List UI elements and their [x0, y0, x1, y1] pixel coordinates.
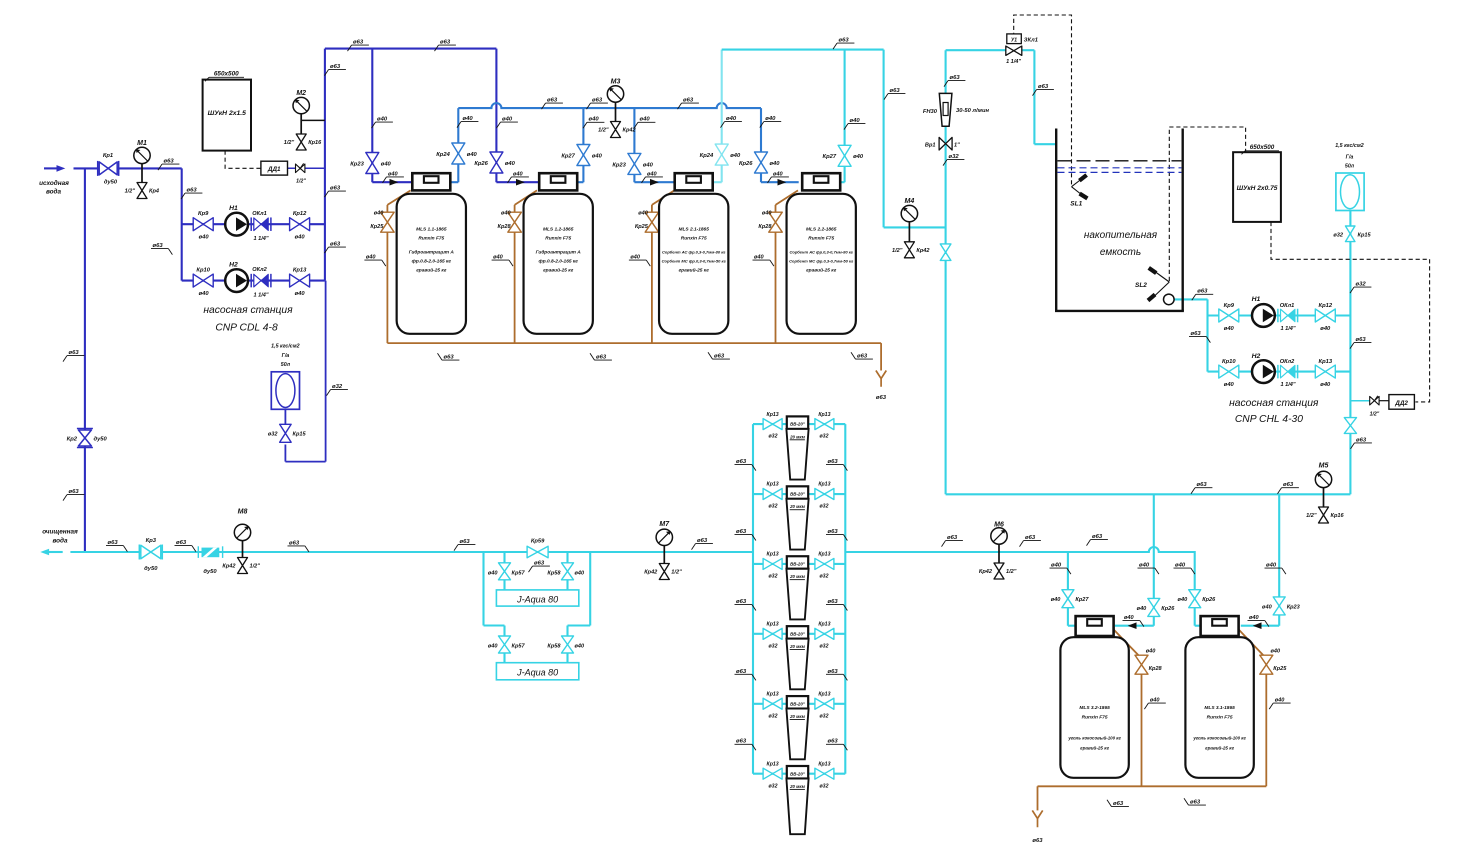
svg-text:1/2": 1/2"	[296, 179, 306, 185]
svg-text:емкость: емкость	[1100, 247, 1141, 258]
svg-text:ø32: ø32	[820, 574, 829, 580]
svg-text:ø40: ø40	[463, 116, 474, 122]
svg-text:ø63: ø63	[1356, 437, 1367, 443]
svg-text:ø32: ø32	[820, 783, 829, 789]
pump H2 CHL	[1252, 360, 1275, 383]
svg-text:ø63: ø63	[736, 739, 747, 745]
svg-text:ø40: ø40	[1139, 563, 1150, 569]
valve on CHL discharge riser	[1344, 418, 1356, 434]
svg-text:ø63: ø63	[153, 243, 164, 249]
svg-text:ø40: ø40	[640, 117, 651, 123]
arrow into tank1.1	[390, 179, 399, 186]
svg-text:уголь кокосовый-100 кг: уголь кокосовый-100 кг	[1067, 736, 1121, 741]
svg-text:1/2": 1/2"	[1006, 569, 1017, 575]
svg-text:1/2": 1/2"	[671, 570, 682, 576]
svg-text:ø63: ø63	[1032, 838, 1043, 844]
gauge M3 with valve Kp42	[615, 94, 617, 123]
svg-text:30-50 л/мин: 30-50 л/мин	[956, 108, 989, 114]
wire cartridge row 4	[753, 633, 845, 635]
svg-text:ø40: ø40	[1320, 326, 1331, 332]
svg-text:ø40: ø40	[1150, 698, 1161, 704]
svg-text:гравий-25 кг: гравий-25 кг	[679, 266, 710, 273]
wire pump CHL discharge line ø63	[946, 493, 1351, 495]
svg-text:Г/а: Г/а	[282, 353, 290, 359]
svg-text:ø63: ø63	[108, 540, 119, 546]
wire main treated-water line right part with crossing arc	[845, 547, 1194, 589]
svg-text:Кр26: Кр26	[1161, 606, 1175, 612]
svg-text:1 1/4": 1 1/4"	[1280, 382, 1295, 388]
check valve OKl2	[250, 274, 252, 288]
svg-text:MLS 1.1-1865: MLS 1.1-1865	[416, 226, 447, 232]
svg-text:ø40: ø40	[1175, 563, 1186, 569]
svg-text:ЗКл1: ЗКл1	[1024, 38, 1038, 44]
svg-text:М3: М3	[611, 79, 621, 86]
tank MLS 2.2-1865	[787, 194, 856, 334]
svg-text:М6: М6	[994, 522, 1004, 529]
svg-text:гравий-25 кг: гравий-25 кг	[1080, 745, 1109, 751]
svg-text:М2: М2	[296, 90, 306, 97]
svg-text:гравий-25 кг: гравий-25 кг	[416, 266, 447, 273]
svg-text:Сорбент АС фр.0,3-0,7мм-80 кг: Сорбент АС фр.0,3-0,7мм-80 кг	[662, 250, 726, 255]
valve Kp24 tank2.1 outlet	[715, 144, 728, 165]
svg-text:Гидроантрацит А: Гидроантрацит А	[536, 250, 582, 256]
svg-text:ø32: ø32	[769, 713, 778, 719]
svg-text:Кр9: Кр9	[1224, 303, 1235, 309]
svg-text:20 мкм: 20 мкм	[789, 504, 806, 509]
valve Kp13 row5 right	[815, 698, 834, 709]
svg-text:20 мкм: 20 мкм	[789, 784, 806, 789]
wire drain manifold group1+2 ø63	[387, 342, 881, 344]
svg-text:Кр12: Кр12	[293, 211, 307, 217]
svg-text:ø32: ø32	[820, 434, 829, 440]
svg-text:ду50: ду50	[104, 180, 118, 186]
svg-text:Кр26: Кр26	[1202, 597, 1216, 603]
svg-text:ø40: ø40	[1266, 563, 1277, 569]
wire drop to M4 header	[883, 50, 885, 228]
svg-text:50л: 50л	[1345, 164, 1355, 170]
valve on recirculation riser	[940, 244, 951, 261]
svg-text:ø32: ø32	[769, 504, 778, 510]
drain valve Кр28	[508, 212, 521, 232]
svg-text:накопительная: накопительная	[1084, 230, 1158, 241]
wire intermediate manifold ø63 with crossing arcs	[458, 103, 761, 108]
control line SL2 to ShUkN2	[1169, 127, 1245, 281]
svg-text:ø63: ø63	[950, 75, 961, 81]
svg-text:Кр42: Кр42	[916, 248, 930, 254]
svg-text:Runxin F75: Runxin F75	[1082, 715, 1108, 721]
valve Kp13 row5 left	[763, 698, 782, 709]
wire tank2.2 inlet drop	[760, 108, 762, 182]
svg-text:Runxin F75: Runxin F75	[418, 236, 444, 242]
svg-text:ø63: ø63	[736, 669, 747, 675]
svg-text:ø40: ø40	[505, 161, 516, 167]
svg-text:J-Aqua 80: J-Aqua 80	[516, 595, 558, 605]
check valve OKl2 CHL	[1277, 365, 1279, 379]
svg-text:CNP CDL 4-8: CNP CDL 4-8	[215, 323, 278, 334]
expansion vessel CDL 50l	[271, 372, 299, 410]
wire tank2.2 outlet riser	[839, 181, 845, 183]
arrow into tank1.2	[516, 179, 525, 186]
svg-text:Кр57: Кр57	[512, 571, 526, 577]
cartridge filter BB-20 row2	[787, 486, 808, 499]
svg-text:ø63: ø63	[736, 459, 747, 465]
wire CHL pump H1 row	[1208, 314, 1351, 316]
svg-text:Кр2: Кр2	[67, 437, 78, 443]
wire outlet manifold group2 ø63	[722, 49, 884, 51]
cartridge filter BB-20 row5	[787, 696, 808, 709]
svg-text:Кр26: Кр26	[739, 161, 753, 167]
svg-text:Кр13: Кр13	[767, 552, 779, 558]
wire top inlet manifold group1 ø63	[325, 48, 497, 50]
svg-text:FH30: FH30	[923, 109, 938, 115]
svg-text:ø63: ø63	[736, 599, 747, 605]
svg-text:гравий-25 кг: гравий-25 кг	[1205, 745, 1234, 751]
pump H1 CDL	[225, 213, 248, 236]
svg-text:ø63: ø63	[330, 242, 341, 248]
svg-text:ø63: ø63	[697, 538, 708, 544]
valve Kp15 left	[280, 424, 292, 442]
valve Kp59 bypass	[527, 546, 548, 558]
svg-text:ø63: ø63	[683, 98, 694, 104]
solenoid valve U1 ZKl1	[1007, 34, 1022, 44]
wire tank1.2 outlet riser	[576, 181, 583, 183]
svg-text:ø40: ø40	[366, 255, 377, 261]
tank MLS 3.1-1865	[1185, 637, 1253, 778]
svg-text:ду50: ду50	[144, 566, 158, 572]
svg-text:ø40: ø40	[295, 291, 306, 297]
cartridge filter BB-20 row6	[787, 766, 808, 779]
cartridge filter BB-20 row1	[787, 416, 808, 429]
svg-text:ø40: ø40	[643, 162, 654, 168]
wire cartridge row 5	[753, 703, 845, 705]
svg-text:Кр27: Кр27	[823, 154, 837, 160]
valve Kp13	[290, 274, 310, 287]
svg-text:ø40: ø40	[762, 211, 773, 217]
drain funnel Y group1	[876, 371, 886, 387]
svg-text:ø32: ø32	[1333, 232, 1344, 238]
valve Kp2 du50	[77, 428, 93, 430]
wire discharge riser CDL ø63	[324, 49, 326, 281]
tank MLS 3.2-1865	[1060, 637, 1128, 778]
svg-text:исходная: исходная	[39, 179, 69, 187]
svg-text:ø32: ø32	[820, 504, 829, 510]
valve Kp15 right	[1345, 226, 1355, 242]
svg-text:Кр4: Кр4	[149, 189, 160, 195]
svg-text:Кр3: Кр3	[146, 538, 157, 544]
valve Kp57 loop2	[499, 636, 511, 653]
svg-text:Кр10: Кр10	[1222, 359, 1236, 365]
svg-text:ø40: ø40	[850, 118, 861, 124]
drain valve Кр25	[645, 212, 659, 232]
valve Kp23 tank3.1 inlet	[1273, 597, 1285, 615]
control line ShUkN1 to DD1	[225, 151, 261, 169]
valve Kp13 row6 right	[815, 768, 834, 779]
svg-text:ø32: ø32	[949, 154, 960, 160]
svg-text:1,5 кгс/см2: 1,5 кгс/см2	[1335, 143, 1363, 149]
wire cartridge row 1	[753, 423, 845, 425]
storage tank outlet nozzle	[1164, 294, 1175, 305]
svg-text:Runxin F75: Runxin F75	[545, 236, 571, 242]
wire tank3.1 inlet drop	[1278, 494, 1280, 625]
svg-text:ø63: ø63	[444, 355, 455, 361]
svg-text:ø63: ø63	[828, 739, 839, 745]
valve Kp12 CHL	[1315, 309, 1335, 322]
svg-text:ø40: ø40	[1224, 382, 1235, 388]
svg-text:ø40: ø40	[773, 171, 784, 177]
svg-text:ø63: ø63	[1092, 534, 1103, 540]
svg-text:М5: М5	[1319, 463, 1329, 470]
svg-text:ШУкН 2x0.75: ШУкН 2x0.75	[1237, 185, 1278, 192]
svg-text:Н2: Н2	[1252, 353, 1261, 360]
wire tank2.2 drain	[776, 190, 799, 205]
svg-text:ø63: ø63	[69, 350, 80, 356]
svg-text:Кр13: Кр13	[767, 761, 779, 767]
expansion vessel CHL 50l	[1336, 173, 1364, 211]
svg-text:ø40: ø40	[493, 255, 504, 261]
valve Kp9 CHL	[1219, 309, 1239, 322]
svg-text:Кр28: Кр28	[1149, 666, 1163, 672]
wire DD1 branch	[288, 167, 325, 169]
gauge M4 with valve Kp42	[908, 214, 910, 243]
valve Kp13 row3 left	[763, 558, 782, 569]
svg-text:Кр24: Кр24	[700, 153, 714, 159]
svg-text:CNP CHL 4-30: CNP CHL 4-30	[1235, 414, 1303, 425]
valve Kp13 row2 left	[763, 489, 782, 500]
svg-text:1": 1"	[954, 143, 960, 149]
svg-text:ø63: ø63	[828, 529, 839, 535]
svg-text:Кр16: Кр16	[1331, 513, 1345, 519]
svg-text:Кр12: Кр12	[1319, 303, 1333, 309]
svg-text:ø63: ø63	[876, 395, 887, 401]
svg-text:М7: М7	[659, 521, 670, 528]
valve Kp1 du50	[97, 161, 99, 176]
wire tank3.1 drain	[1239, 630, 1266, 659]
svg-text:Кр27: Кр27	[561, 153, 575, 159]
svg-text:ОКл1: ОКл1	[252, 211, 266, 217]
svg-text:ø40: ø40	[575, 571, 586, 577]
svg-text:Кр10: Кр10	[196, 268, 210, 274]
svg-text:ВВ-20": ВВ-20"	[790, 771, 806, 776]
check valve OKl1	[250, 217, 252, 231]
cartridge filter BB-20 row3	[787, 556, 808, 569]
svg-text:Кр9: Кр9	[198, 211, 209, 217]
svg-text:Кр13: Кр13	[818, 482, 830, 488]
wire cartridge row 3	[753, 563, 845, 565]
wire pump H1 suction/discharge row	[182, 223, 325, 225]
svg-text:Кр28: Кр28	[758, 224, 772, 230]
valve Kp10	[193, 274, 213, 287]
storage tank nakopitelnaya emkost	[1055, 129, 1057, 311]
wire tank3.2 outlet drop	[1067, 552, 1069, 626]
wafer check valve du50	[197, 546, 199, 558]
svg-text:Н1: Н1	[229, 205, 238, 212]
wire CHL pump H2 row	[1208, 371, 1351, 373]
svg-text:1/2": 1/2"	[284, 140, 295, 146]
svg-text:ОКл1: ОКл1	[1280, 303, 1294, 309]
svg-text:ø32: ø32	[332, 384, 343, 390]
svg-text:ø40: ø40	[488, 571, 499, 577]
svg-text:Кр58: Кр58	[547, 644, 561, 650]
control line ShUkN2 to DD2	[1271, 222, 1430, 402]
svg-text:ДД2: ДД2	[1394, 400, 1408, 407]
svg-text:Кр13: Кр13	[818, 622, 830, 628]
svg-text:Кр59: Кр59	[531, 539, 545, 545]
svg-text:1/2": 1/2"	[598, 128, 609, 134]
svg-text:Кр24: Кр24	[436, 152, 450, 158]
svg-text:ø40: ø40	[501, 211, 512, 217]
svg-text:ø63: ø63	[440, 40, 451, 46]
svg-text:50л: 50л	[281, 362, 291, 368]
svg-text:Кр26: Кр26	[474, 161, 488, 167]
valve Kp27 tank3.2 outlet	[1062, 590, 1074, 608]
valve Kp12	[290, 218, 310, 231]
svg-text:ДД1: ДД1	[267, 166, 281, 173]
wire J-Aqua bypass loop 2	[482, 552, 484, 626]
wire suction header CDL	[181, 168, 183, 280]
wire recirculation riser ø63	[945, 50, 947, 494]
wire tank1.1 inlet drop	[371, 49, 373, 183]
drain valve Kp28 tank3.2	[1135, 655, 1148, 674]
svg-text:ø40: ø40	[765, 116, 776, 122]
svg-text:ø40: ø40	[1124, 615, 1135, 621]
drain valve Kp25 tank3.1	[1260, 655, 1273, 674]
wire expansion vessel loop CDL ø32	[325, 281, 327, 462]
svg-text:1/2": 1/2"	[892, 248, 903, 254]
arrow into tank3.2	[1128, 622, 1137, 629]
svg-text:ВВ-20": ВВ-20"	[790, 492, 806, 497]
svg-text:ø40: ø40	[853, 154, 864, 160]
svg-text:ø32: ø32	[769, 643, 778, 649]
needle valve at DD2 1/2in	[1370, 396, 1379, 405]
wire cartridge row 6	[753, 773, 845, 775]
svg-text:ø40: ø40	[770, 161, 781, 167]
svg-text:ø40: ø40	[1224, 326, 1235, 332]
svg-text:насосная станция: насосная станция	[203, 305, 293, 316]
svg-text:Кр42: Кр42	[979, 569, 993, 575]
svg-text:ø40: ø40	[381, 161, 392, 167]
svg-text:М8: М8	[238, 509, 248, 516]
svg-text:1/2": 1/2"	[250, 564, 261, 570]
svg-text:1/2": 1/2"	[1306, 513, 1317, 519]
wire bypass riser to Kp2	[84, 168, 86, 552]
svg-text:1 1/4": 1 1/4"	[253, 292, 268, 298]
node raw inlet arrow	[57, 165, 66, 172]
svg-text:ВВ-20": ВВ-20"	[790, 631, 806, 636]
tank MLS 2.1-1865	[659, 194, 728, 334]
svg-text:ø40: ø40	[488, 644, 499, 650]
drain funnel Y group3	[1032, 810, 1042, 827]
svg-text:ø63: ø63	[828, 669, 839, 675]
svg-text:Кр13: Кр13	[767, 622, 779, 628]
svg-text:ø63: ø63	[187, 188, 198, 194]
svg-text:1/2": 1/2"	[1370, 412, 1380, 418]
svg-text:ø63: ø63	[839, 38, 850, 44]
svg-text:ø63: ø63	[547, 98, 558, 104]
svg-text:Н2: Н2	[229, 261, 238, 268]
gauge M5 with valve Kp16	[1323, 479, 1325, 508]
svg-text:гравий-25 кг: гравий-25 кг	[806, 266, 837, 273]
arrow into tank3.1	[1253, 622, 1262, 629]
svg-text:ø40: ø40	[1262, 604, 1273, 610]
svg-text:ø40: ø40	[199, 235, 210, 241]
svg-text:MLS 1.2-1865: MLS 1.2-1865	[543, 226, 574, 232]
wire tank2.1 outlet riser	[713, 181, 722, 183]
svg-text:вода: вода	[46, 188, 62, 196]
wire feed line to storage tank via Y1	[946, 49, 1006, 51]
svg-text:ø40: ø40	[1051, 597, 1062, 603]
gauge M6 with valve Kp43	[998, 536, 1000, 564]
gauge M2 with valve Kp16	[301, 119, 325, 121]
svg-text:Сорбент МС фр.0,3-0,7мм-50 кг: Сорбент МС фр.0,3-0,7мм-50 кг	[789, 259, 854, 264]
svg-text:ø32: ø32	[1356, 282, 1367, 288]
svg-text:ø40: ø40	[647, 171, 658, 177]
svg-text:Сорбент МС фр.0,3-0,7мм-50 кг: Сорбент МС фр.0,3-0,7мм-50 кг	[662, 259, 727, 264]
svg-text:ø40: ø40	[638, 211, 649, 217]
svg-text:ø40: ø40	[467, 152, 478, 158]
svg-text:SL2: SL2	[1135, 282, 1147, 289]
svg-text:ø63: ø63	[828, 599, 839, 605]
control line Y1 to SL1	[1014, 15, 1072, 185]
svg-text:Кр23: Кр23	[1287, 604, 1301, 610]
svg-text:Кр13: Кр13	[293, 268, 307, 274]
svg-text:Кр23: Кр23	[612, 162, 626, 168]
svg-text:Кр13: Кр13	[767, 412, 779, 418]
svg-text:ø32: ø32	[769, 574, 778, 580]
wire CHL discharge riser	[1349, 210, 1351, 494]
svg-text:Кр13: Кр13	[1319, 359, 1333, 365]
svg-text:ø40: ø40	[726, 116, 737, 122]
svg-text:ø32: ø32	[769, 434, 778, 440]
UV unit J-Aqua 80 no.1	[496, 590, 578, 606]
svg-text:ø40: ø40	[513, 171, 524, 177]
svg-text:У1: У1	[1011, 38, 1017, 44]
svg-text:Runxin F75: Runxin F75	[681, 236, 707, 242]
svg-text:ОКл2: ОКл2	[252, 267, 267, 273]
svg-text:ø63: ø63	[1197, 482, 1208, 488]
svg-text:ø63: ø63	[1025, 535, 1036, 541]
svg-text:ø40: ø40	[1320, 382, 1331, 388]
check valve OKl1 CHL	[1277, 309, 1279, 323]
UV unit J-Aqua 80 no.2	[496, 663, 578, 680]
wire tank2.1 inlet drop	[633, 108, 635, 182]
valve Kp13 CHL	[1315, 365, 1335, 378]
svg-text:очищенная: очищенная	[42, 529, 78, 536]
svg-text:ø63: ø63	[1283, 482, 1294, 488]
control cabinet ShUkN 2x1.5	[203, 80, 251, 151]
valve Kp27 tank1.2 outlet	[577, 145, 590, 166]
svg-text:Кр13: Кр13	[818, 691, 830, 697]
svg-text:Н1: Н1	[1252, 296, 1261, 303]
valve Kp57 loop1	[499, 563, 511, 580]
valve Kp23 tank1.1 inlet	[366, 153, 379, 174]
svg-text:20 мкм: 20 мкм	[789, 434, 806, 439]
svg-text:MLS 2.1-1865: MLS 2.1-1865	[678, 226, 709, 232]
svg-text:ø40: ø40	[377, 117, 388, 123]
wire main treated-water line left part ø63	[49, 551, 63, 553]
svg-text:Кр58: Кр58	[547, 571, 561, 577]
svg-text:ø40: ø40	[630, 255, 641, 261]
valve Kp13 row4 right	[815, 628, 834, 639]
needle valve at DD1 1/2in	[296, 164, 305, 173]
pump H1 CHL	[1252, 304, 1275, 327]
svg-text:ø32: ø32	[769, 783, 778, 789]
svg-text:М4: М4	[905, 198, 915, 205]
valve Kp26 tank1.2 inlet	[490, 152, 503, 173]
svg-text:Кр25: Кр25	[1273, 666, 1287, 672]
svg-text:Кр13: Кр13	[767, 482, 779, 488]
svg-text:ø63: ø63	[534, 561, 545, 567]
svg-text:ШУкН 2x1.5: ШУкН 2x1.5	[208, 110, 247, 117]
